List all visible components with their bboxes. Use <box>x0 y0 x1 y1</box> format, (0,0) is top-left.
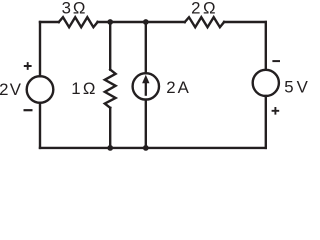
minus sign of V1 <box>24 109 33 111</box>
wire branch 1ohm upper <box>109 22 111 70</box>
svg-text:3Ω: 3Ω <box>62 0 86 18</box>
plus sign of V2 <box>272 107 280 115</box>
junction node bottom-left <box>107 145 113 151</box>
svg-text:2A: 2A <box>166 78 189 97</box>
wire left branch upper <box>39 22 41 76</box>
current source I1 arrow <box>142 75 149 96</box>
junction node bottom-right <box>143 145 149 151</box>
wire branch current source upper <box>145 22 147 73</box>
resistor R2 1ohm <box>105 70 116 108</box>
wire branch current source lower <box>145 100 147 148</box>
svg-text:5V: 5V <box>284 77 308 96</box>
current source I1 2A circle <box>133 73 159 99</box>
voltage source V2 5V circle <box>253 70 279 96</box>
svg-text:1Ω: 1Ω <box>71 79 95 98</box>
resistor R3 2ohm <box>185 17 224 27</box>
minus sign of V2 <box>272 60 280 62</box>
wire top-left segment <box>40 21 59 23</box>
svg-text:2V: 2V <box>0 80 22 99</box>
wire branch 1ohm lower <box>109 108 111 148</box>
wire top middle segment <box>98 21 185 23</box>
wire right branch lower <box>265 96 267 148</box>
wire top-right segment <box>224 21 266 23</box>
junction node top-left <box>107 19 113 25</box>
plus sign of V1 <box>24 62 32 70</box>
junction node top-right <box>143 19 149 25</box>
wire left branch lower <box>39 103 41 148</box>
wire bottom <box>40 147 266 149</box>
voltage source V1 2V circle <box>27 76 54 103</box>
resistor R1 3ohm <box>59 17 98 27</box>
svg-text:2Ω: 2Ω <box>191 0 215 18</box>
wire right branch upper <box>265 22 267 70</box>
